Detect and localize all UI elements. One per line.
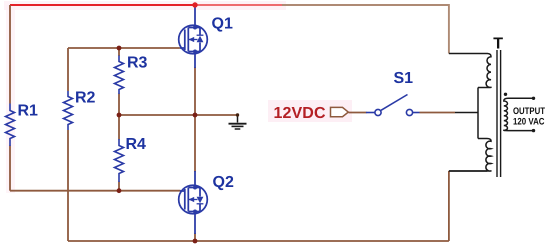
wire R2 column lower [67, 130, 69, 241]
resistor R3 [115, 56, 124, 95]
wire top rail red segment [10, 4, 195, 6]
transformer core line left [496, 50, 498, 177]
ground [229, 115, 247, 129]
wire gate rail y48 [68, 47, 180, 49]
svg-text:R4: R4 [126, 136, 147, 153]
wire R4 column bottom stub [118, 182, 120, 191]
resistor R4 [115, 139, 124, 182]
pink jpeg halo under 12VDC [268, 100, 352, 122]
node dot R4 bottom [117, 188, 122, 193]
svg-text:T: T [493, 36, 503, 53]
wire switch to transformer black [455, 112, 478, 114]
wire primary bottom lead black [449, 170, 487, 172]
wire R2 column upper [67, 48, 69, 91]
svg-text:S1: S1 [394, 70, 414, 87]
wire Q2 source to bottom rail [194, 233, 196, 241]
secondary phase dot [504, 93, 507, 96]
wire top rail salmon segment [195, 4, 282, 6]
transformer T center tap bus [477, 88, 479, 139]
node dot top rail [192, 2, 197, 7]
svg-text:OUTPUT: OUTPUT [513, 106, 545, 117]
node dot Q1 source rail [193, 113, 198, 118]
node dot ground tap [236, 113, 239, 116]
svg-text:R1: R1 [18, 103, 39, 120]
wire left rail lower [9, 146, 11, 191]
svg-text:12VDC: 12VDC [274, 105, 326, 122]
wire middle rail y115 [119, 114, 238, 116]
transformer T primary top winding [449, 54, 491, 88]
wire bottom rail [68, 240, 449, 242]
svg-text:Q1: Q1 [212, 15, 233, 32]
wire Q2 drain from rail [194, 115, 196, 172]
svg-text:R2: R2 [75, 90, 96, 107]
wire R4 column top stub [118, 115, 120, 140]
resistor R2 [64, 91, 73, 130]
transistor Q2 (mirrored) [179, 171, 208, 234]
resistor R1 [6, 104, 15, 147]
svg-text:Q2: Q2 [213, 174, 234, 191]
wire switch to transformer brown [420, 112, 456, 114]
wire left rail upper [9, 5, 11, 104]
connector 12VDC tag [331, 107, 349, 116]
wire gate rail y190 [10, 190, 181, 192]
transformer core line right [500, 50, 502, 177]
secondary terminal dot top [532, 97, 535, 100]
switch S1 [366, 95, 420, 116]
wire connector to switch [349, 112, 367, 114]
wire right riser [448, 171, 450, 241]
transformer secondary winding [504, 98, 534, 130]
halo top rail [4, 1, 286, 10]
wire Q1 source to rail [194, 67, 196, 115]
secondary terminal dot bottom [532, 129, 535, 132]
halo left rail [6, 5, 15, 193]
node dot Q2 source bottom [193, 239, 198, 244]
wire top rail brown segment to transformer [282, 5, 449, 54]
wire R3 column top stub [118, 48, 120, 56]
node dot R3 bottom [117, 113, 122, 118]
svg-text:120 VAC: 120 VAC [513, 117, 545, 128]
node dot R3 top [117, 46, 122, 51]
transformer T primary bottom winding [449, 139, 491, 172]
transistor Q1 [179, 5, 208, 68]
svg-text:R3: R3 [127, 55, 148, 72]
wire R3 column bottom stub [118, 94, 120, 116]
